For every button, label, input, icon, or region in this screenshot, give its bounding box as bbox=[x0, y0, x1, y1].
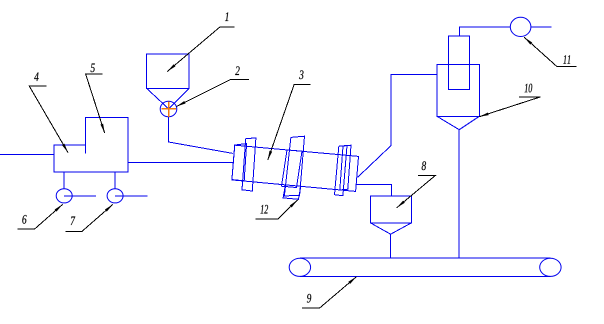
leader label 6 bbox=[18, 204, 63, 229]
leader label 4 bbox=[29, 86, 68, 153]
cyclone 10 outer bbox=[437, 65, 479, 117]
fan 11 circle bbox=[510, 17, 531, 36]
leader label 3 bbox=[268, 85, 311, 161]
label 10 bbox=[525, 84, 528, 93]
leader label 2 bbox=[176, 79, 249, 106]
conveyor 9 belt top bbox=[300, 257, 551, 259]
label 11 bbox=[563, 55, 566, 64]
wire shaft of 7 bbox=[115, 195, 147, 197]
drum ring band 3a bbox=[335, 145, 348, 195]
conveyor 9 right pulley bbox=[540, 258, 561, 276]
leader label 7 bbox=[65, 204, 113, 231]
wire stem to valve 6 bbox=[63, 172, 65, 189]
mixer body U4/5 bbox=[54, 118, 128, 173]
label 5 bbox=[91, 63, 95, 72]
wire stem to valve 7 bbox=[114, 172, 116, 189]
leader label 8 bbox=[397, 175, 436, 207]
label 2 bbox=[235, 66, 239, 75]
leader label 12 bbox=[256, 200, 298, 219]
valve 2 orange cross bbox=[161, 102, 176, 117]
wire feed line left bbox=[0, 154, 54, 156]
conveyor 9 belt bottom bbox=[300, 275, 551, 277]
drum ring band 3b bbox=[340, 145, 351, 190]
wire drum discharge bbox=[356, 184, 392, 196]
wire cyclone outlet to fan bbox=[460, 27, 511, 36]
drum 3 body bbox=[232, 145, 359, 191]
label 7 bbox=[71, 216, 75, 225]
wire hopper 8 stem bbox=[390, 234, 392, 258]
conveyor 9 left pulley bbox=[289, 258, 310, 276]
drum ring band 2b bbox=[282, 150, 303, 188]
wire cyclone down pipe bbox=[458, 130, 460, 258]
hopper 8 bbox=[370, 196, 411, 234]
label 8 bbox=[422, 161, 426, 170]
leader label 11 bbox=[524, 37, 576, 66]
leader label 9 bbox=[302, 277, 357, 309]
leader label 5 bbox=[86, 74, 105, 133]
hopper 1 bbox=[147, 54, 190, 109]
cyclone 10 cone bbox=[437, 116, 479, 129]
wire mixer to drum bbox=[128, 161, 233, 163]
leader label 1 bbox=[167, 27, 234, 72]
label 6 bbox=[22, 215, 26, 224]
cyclone 10 inner tube bbox=[448, 36, 469, 89]
drum ring band 2c lower bbox=[283, 185, 301, 199]
label 4 bbox=[34, 72, 38, 81]
label 3 bbox=[299, 70, 303, 79]
wire fan outlet bbox=[531, 26, 552, 28]
label 1 bbox=[225, 12, 228, 21]
wire valve 2 down pipe bbox=[169, 117, 233, 154]
valve 6 circle bbox=[56, 189, 72, 203]
feeder valve 2 circle bbox=[160, 101, 177, 117]
drum ring band 1a bbox=[232, 144, 247, 181]
drum ring band 1b bbox=[242, 138, 256, 191]
label 12 bbox=[260, 205, 263, 214]
drum ring band 2a bbox=[284, 136, 304, 196]
wire riser duct drum to cyclone bbox=[358, 74, 438, 177]
valve 7 circle bbox=[107, 189, 123, 203]
label 9 bbox=[307, 294, 311, 303]
wire shaft of 6 bbox=[64, 195, 96, 197]
leader label 10 bbox=[479, 97, 540, 117]
